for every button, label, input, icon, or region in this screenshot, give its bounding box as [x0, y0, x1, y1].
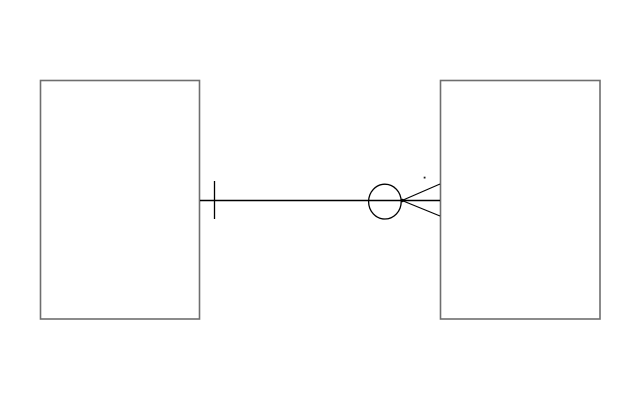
optionality circle (zero) [369, 184, 402, 219]
wire: relationship line [200, 200, 440, 202]
entity box E1 (left) [41, 81, 200, 320]
crow's foot lower prong [402, 201, 440, 217]
entity box E2 (right) [441, 81, 601, 320]
crow's foot upper prong [402, 184, 440, 201]
cardinality tick (one) [214, 181, 216, 219]
crow's foot vertex dot [401, 199, 404, 202]
stray dot [424, 177, 426, 179]
